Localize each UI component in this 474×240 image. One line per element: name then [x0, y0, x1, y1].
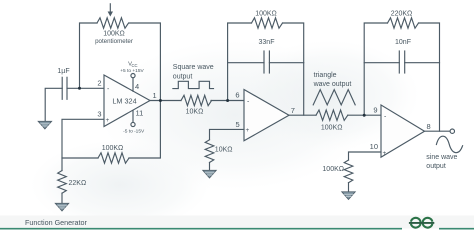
wire C1 left	[45, 88, 62, 121]
wire 10K to pin6	[211, 100, 244, 102]
wire 10K to ground	[209, 163, 211, 171]
wire pin5 row	[210, 129, 245, 139]
wire pot right rail	[129, 23, 160, 101]
resistor R5 100K	[252, 18, 283, 28]
wire pin1 output	[150, 100, 181, 102]
node pin9 junction	[363, 114, 366, 117]
svg-text:triangle: triangle	[314, 72, 337, 79]
square wave symbol	[173, 81, 214, 88]
label Square wave output	[173, 64, 214, 80]
footer band	[0, 216, 474, 229]
ground 100K	[342, 192, 355, 200]
wire 100K to ground	[348, 183, 350, 192]
svg-text:100KΩ: 100KΩ	[322, 166, 344, 173]
svg-text:3: 3	[97, 109, 101, 118]
resistor R2 100K feedback	[98, 153, 129, 163]
svg-text:100KΩ: 100KΩ	[321, 125, 343, 132]
label sine wave output	[426, 154, 457, 170]
svg-text:100KΩ: 100KΩ	[255, 11, 277, 18]
node pin6 junction	[226, 99, 229, 102]
svg-text:10KΩ: 10KΩ	[186, 108, 204, 115]
wire pin8 output	[425, 130, 451, 132]
wire C3 left	[364, 62, 399, 64]
svg-text:8: 8	[427, 122, 431, 131]
svg-text:-5 to -15V: -5 to -15V	[123, 129, 145, 135]
wire fb row right	[129, 101, 160, 159]
wire pin10 row	[349, 152, 382, 160]
wire C1 to pin2	[67, 87, 104, 89]
svg-text:6: 6	[235, 91, 239, 100]
ground C1	[38, 121, 51, 129]
ground 10K	[203, 170, 216, 178]
pin 11 terminal	[131, 122, 135, 126]
svg-text:100KΩ: 100KΩ	[102, 145, 124, 152]
pin 11 stub	[132, 111, 134, 123]
svg-text:Square wave: Square wave	[173, 64, 214, 71]
op-amp U1C LM324	[381, 105, 425, 157]
node pin1 output junction	[159, 99, 162, 102]
op-amp U1B LM324	[244, 90, 289, 141]
svg-text:1µF: 1µF	[57, 68, 69, 75]
svg-text:100KΩ: 100KΩ	[103, 31, 125, 38]
svg-text:LM 324: LM 324	[112, 96, 136, 105]
wire RC2 right rail	[283, 23, 304, 115]
wire pin7 output row	[289, 114, 316, 116]
svg-text:9: 9	[373, 106, 377, 115]
svg-text:potentiometer: potentiometer	[95, 38, 133, 45]
svg-text:output: output	[426, 163, 446, 170]
label triangle wave output	[313, 72, 352, 88]
ground 22K	[55, 203, 68, 211]
svg-text:+: +	[246, 127, 250, 134]
svg-text:7: 7	[291, 106, 295, 115]
svg-text:33nF: 33nF	[259, 39, 275, 46]
resistor R8 220K	[388, 18, 419, 28]
svg-text:5: 5	[236, 120, 240, 129]
svg-text:wave output: wave output	[313, 81, 352, 88]
wire RC3 right rail	[419, 23, 440, 131]
capacitor C1 1uF	[62, 77, 67, 99]
svg-text:output: output	[173, 73, 193, 80]
svg-text:Function Generator: Function Generator	[25, 218, 88, 227]
logo GeeksforGeeks	[409, 218, 434, 228]
svg-text:2: 2	[97, 78, 101, 87]
potentiometer R1 100K	[97, 18, 129, 28]
pin 4 stub	[132, 78, 134, 92]
triangle wave symbol	[313, 90, 355, 105]
wire RC3 left rail	[364, 23, 387, 115]
sine wave symbol	[436, 136, 462, 152]
svg-text:10KΩ: 10KΩ	[215, 146, 233, 153]
potentiometer wiper arrow	[108, 4, 113, 17]
resistor R4 10K	[181, 95, 212, 105]
svg-text:1: 1	[153, 91, 157, 100]
resistor R7 100K	[316, 110, 348, 120]
svg-text:sine wave: sine wave	[426, 154, 457, 161]
capacitor C2 33nF	[264, 51, 269, 73]
wire 100K to pin9	[348, 114, 381, 116]
svg-text:10: 10	[370, 142, 378, 151]
op-amp U1A LM324	[104, 75, 150, 127]
svg-text:4: 4	[135, 82, 139, 91]
wire pin3 row	[62, 119, 104, 170]
footer rule left	[0, 228, 402, 230]
svg-text:11: 11	[136, 109, 144, 118]
resistor R6 10K	[205, 140, 214, 163]
svg-text:10nF: 10nF	[395, 39, 411, 46]
footer rule right	[439, 228, 474, 230]
capacitor C3 10nF	[399, 51, 404, 73]
node pin2 junction	[78, 87, 81, 90]
svg-text:CC: CC	[131, 63, 137, 68]
svg-text:+5 to +15V: +5 to +15V	[120, 68, 144, 74]
pin 8 terminal	[450, 129, 454, 133]
svg-text:22KΩ: 22KΩ	[69, 180, 87, 187]
wire fb row left	[62, 157, 98, 159]
svg-text:+: +	[383, 150, 387, 157]
wire C2 left	[228, 62, 264, 64]
svg-text:+: +	[106, 117, 110, 124]
label 100K potentiometer	[95, 31, 133, 46]
label VCC	[120, 62, 144, 74]
pin 4 terminal	[131, 74, 135, 78]
resistor R3 22K	[58, 171, 67, 194]
wire 22K to ground	[61, 193, 63, 203]
wire pot left rail	[80, 23, 98, 88]
resistor R9 100K	[344, 160, 353, 183]
svg-text:220KΩ: 220KΩ	[391, 11, 413, 18]
wire RC2 left rail	[228, 23, 252, 101]
wire C3 right	[405, 62, 440, 64]
wire C2 right	[269, 62, 303, 64]
